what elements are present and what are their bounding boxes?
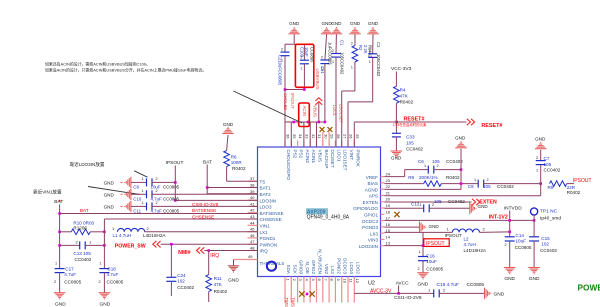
svg-text:GND: GND [455, 136, 466, 141]
svg-text:GND: GND [350, 21, 361, 26]
svg-text:靠近LDO3IN放置: 靠近LDO3IN放置 [70, 161, 105, 168]
svg-text:GND: GND [429, 224, 440, 229]
svg-text:GND: GND [494, 291, 505, 297]
svg-text:GPIO2: GPIO2 [311, 260, 316, 274]
svg-text:25: 25 [355, 134, 360, 139]
svg-text:C1: C1 [340, 40, 345, 46]
svg-text:CC0805: CC0805 [163, 185, 180, 190]
svg-text:102: 102 [541, 242, 549, 247]
svg-text:VIN3: VIN3 [368, 238, 379, 243]
svg-text:34: 34 [298, 134, 303, 139]
svg-text:1: 1 [281, 59, 283, 63]
svg-text:PGND1: PGND1 [260, 236, 276, 241]
svg-text:2: 2 [437, 164, 439, 168]
svg-text:APS: APS [369, 194, 378, 199]
svg-text:N_VBUSEN: N_VBUSEN [318, 249, 323, 274]
svg-text:10uF: 10uF [304, 47, 309, 57]
svg-text:2: 2 [156, 201, 158, 205]
svg-text:31: 31 [317, 134, 322, 139]
svg-text:33: 33 [305, 134, 310, 139]
svg-text:47K: 47K [400, 94, 409, 99]
svg-text:EXTEN: EXTEN [363, 200, 378, 205]
svg-text:R0402: R0402 [232, 166, 246, 171]
svg-text:IRQ: IRQ [260, 249, 269, 254]
svg-text:32: 32 [311, 134, 316, 139]
svg-text:49: 49 [248, 254, 253, 259]
svg-text:LDO4: LDO4 [349, 262, 354, 274]
svg-text:GND: GND [104, 180, 115, 185]
svg-text:PGND2: PGND2 [336, 258, 341, 274]
svg-text:30: 30 [323, 134, 328, 139]
svg-text:16: 16 [386, 222, 391, 227]
svg-text:NMI#: NMI# [178, 250, 191, 256]
svg-text:CC0805: CC0805 [163, 197, 180, 202]
svg-text:10: 10 [342, 279, 347, 284]
svg-text:TWSI_SCK: TWSI_SCK [290, 298, 295, 307]
svg-text:12: 12 [355, 279, 360, 284]
svg-text:C6: C6 [418, 159, 424, 164]
svg-text:POWER: POWER [578, 283, 600, 293]
svg-text:4.7uF: 4.7uF [151, 209, 163, 214]
svg-text:VIN2: VIN2 [324, 264, 329, 275]
svg-text:27: 27 [342, 134, 347, 139]
svg-text:CHOLED/GPO: CHOLED/GPO [286, 150, 291, 181]
svg-text:CC0402: CC0402 [540, 248, 557, 253]
svg-text:VCC-3V3: VCC-3V3 [391, 66, 412, 72]
svg-text:VINT: VINT [349, 150, 354, 161]
svg-text:38: 38 [250, 183, 255, 188]
svg-text:C15: C15 [541, 236, 550, 241]
svg-text:102: 102 [177, 279, 185, 284]
svg-text:C24: C24 [177, 273, 186, 278]
svg-text:4.7uF: 4.7uF [107, 272, 119, 277]
svg-text:2: 2 [300, 56, 302, 60]
svg-text:IPSOUT: IPSOUT [166, 160, 184, 166]
svg-text:4.7uF: 4.7uF [64, 272, 76, 277]
svg-text:GPIO0/LDO: GPIO0/LDO [353, 206, 378, 211]
svg-text:GND: GND [368, 21, 379, 26]
svg-text:44: 44 [250, 220, 255, 225]
svg-text:R0402: R0402 [446, 175, 460, 180]
svg-text:105: 105 [483, 184, 491, 189]
svg-text:2: 2 [536, 156, 538, 160]
svg-text:BAT2: BAT2 [260, 192, 272, 197]
svg-text:R1206: R1206 [73, 226, 87, 231]
svg-text:1: 1 [55, 262, 57, 266]
svg-text:105CC0402: 105CC0402 [376, 54, 381, 77]
svg-text:2: 2 [487, 178, 489, 182]
svg-text:R9: R9 [548, 185, 554, 190]
svg-text:LDO3: LDO3 [260, 205, 272, 210]
svg-text:LDO1: LDO1 [336, 150, 341, 162]
svg-text:C16: C16 [426, 254, 435, 259]
svg-text:R0402: R0402 [400, 100, 414, 105]
svg-text:CC0805: CC0805 [467, 282, 485, 288]
svg-text:IPSOUT: IPSOUT [573, 178, 592, 184]
svg-text:GPIO0: GPIO0 [299, 260, 304, 274]
svg-text:C18: C18 [107, 267, 116, 272]
svg-text:LDO1: LDO1 [332, 105, 337, 117]
svg-text:29: 29 [330, 134, 335, 139]
svg-text:13: 13 [386, 241, 391, 246]
svg-text:GND: GND [418, 281, 429, 287]
svg-text:C12: C12 [411, 202, 420, 207]
svg-text:1: 1 [369, 60, 371, 64]
svg-text:如果还有ACIN的设计，需把ACIN和USBVBUS短接用C: 如果还有ACIN的设计，需把ACIN和USBVBUS短接用C109。 [45, 62, 150, 67]
svg-text:R0402: R0402 [367, 45, 372, 58]
svg-text:LDO1SET: LDO1SET [338, 104, 343, 124]
svg-text:1: 1 [142, 189, 144, 193]
svg-text:46: 46 [250, 233, 255, 238]
svg-text:39: 39 [250, 189, 255, 194]
svg-text:PS1: PS1 [299, 150, 304, 159]
svg-text:L1 4.7uH: L1 4.7uH [113, 233, 132, 238]
svg-text:GND: GND [104, 192, 115, 197]
svg-text:TS: TS [260, 179, 266, 184]
svg-text:17: 17 [386, 216, 391, 221]
svg-text:CC0805: CC0805 [515, 245, 532, 250]
svg-text:48: 48 [250, 246, 255, 251]
svg-text:2: 2 [418, 267, 420, 271]
svg-text:LDO1SET: LDO1SET [343, 150, 348, 171]
svg-text:IPSOUT: IPSOUT [290, 93, 295, 109]
svg-text:19: 19 [386, 203, 391, 208]
svg-text:R11: R11 [214, 276, 223, 281]
svg-text:INTVDD: INTVDD [504, 206, 522, 212]
svg-text:BATSENSE: BATSENSE [260, 211, 284, 216]
svg-text:43: 43 [250, 214, 255, 219]
svg-text:GND: GND [529, 276, 540, 282]
svg-text:41: 41 [250, 201, 255, 206]
svg-text:RESET#: RESET# [481, 123, 502, 129]
svg-text:200K/1%: 200K/1% [419, 175, 438, 180]
svg-text:47: 47 [250, 239, 255, 244]
svg-text:靠近VIN1放置: 靠近VIN1放置 [33, 188, 62, 195]
svg-text:47K: 47K [214, 282, 223, 287]
svg-text:105: 105 [434, 199, 442, 204]
svg-text:20: 20 [386, 197, 391, 202]
svg-text:PWROK: PWROK [355, 150, 360, 168]
svg-text:IPSOUT: IPSOUT [445, 233, 462, 238]
svg-text:CSI0-IO-2V8: CSI0-IO-2V8 [192, 202, 219, 207]
svg-text:VBUS: VBUS [318, 150, 323, 163]
svg-text:CC0805: CC0805 [163, 209, 180, 214]
svg-text:14: 14 [386, 234, 391, 239]
svg-text:4.7uH: 4.7uH [464, 242, 476, 247]
svg-text:GND: GND [100, 302, 111, 307]
svg-text:23: 23 [386, 178, 391, 183]
svg-text:2: 2 [505, 243, 507, 247]
svg-text:GND: GND [104, 204, 115, 209]
svg-text:DCDC3: DCDC3 [343, 258, 348, 274]
svg-text:GND: GND [391, 156, 402, 161]
svg-text:R0402: R0402 [214, 289, 228, 294]
svg-text:105: 105 [544, 162, 552, 167]
svg-text:1: 1 [142, 201, 144, 205]
svg-text:BACKUP: BACKUP [324, 150, 329, 169]
svg-text:ACIN2: ACIN2 [305, 150, 310, 164]
svg-text:LDO2: LDO2 [355, 262, 360, 274]
svg-text:tp40_smd: tp40_smd [540, 215, 561, 221]
svg-text:100R: 100R [231, 160, 243, 165]
svg-text:DCDC3: DCDC3 [362, 219, 378, 224]
svg-text:CC0805: CC0805 [64, 280, 81, 285]
svg-text:C19 4.7uF: C19 4.7uF [437, 282, 459, 288]
svg-text:40: 40 [250, 195, 255, 200]
svg-text:22: 22 [386, 184, 391, 189]
svg-text:ACIN: ACIN [302, 106, 307, 117]
svg-text:CC0402: CC0402 [406, 147, 423, 152]
svg-text:BIAS: BIAS [368, 181, 378, 186]
svg-text:R6: R6 [231, 155, 237, 160]
svg-text:AVCC-3V: AVCC-3V [370, 289, 392, 295]
svg-text:GND: GND [331, 21, 342, 26]
svg-text:1: 1 [100, 262, 102, 266]
svg-text:1: 1 [420, 203, 422, 207]
svg-text:R2: R2 [358, 45, 363, 51]
svg-text:CC0805: CC0805 [426, 267, 443, 272]
svg-text:CC0402: CC0402 [75, 257, 92, 262]
svg-text:10uF: 10uF [426, 259, 437, 264]
svg-text:10uF: 10uF [516, 239, 527, 244]
svg-text:1: 1 [536, 169, 538, 173]
svg-text:LX3: LX3 [370, 231, 379, 236]
svg-text:C14: C14 [516, 233, 525, 238]
svg-text:GPIO1: GPIO1 [364, 212, 378, 217]
svg-text:2: 2 [99, 280, 101, 284]
svg-text:2: 2 [156, 177, 158, 181]
svg-text:C33: C33 [406, 135, 415, 140]
svg-text:SDA: SDA [286, 265, 291, 275]
svg-text:ACIN1: ACIN1 [311, 150, 316, 164]
svg-text:GND: GND [289, 21, 300, 26]
svg-text:R4: R4 [400, 88, 406, 93]
svg-text:LX1: LX1 [260, 230, 269, 235]
svg-text:1: 1 [300, 67, 302, 71]
svg-text:105: 105 [406, 141, 414, 146]
svg-text:21: 21 [386, 190, 391, 195]
svg-text:VBUS: VBUS [313, 105, 318, 117]
svg-text:VIN1: VIN1 [260, 224, 271, 229]
svg-text:IPSOUT: IPSOUT [426, 241, 445, 247]
svg-text:C8: C8 [133, 185, 139, 190]
svg-text:C11: C11 [133, 209, 141, 214]
svg-text:LDO24IN: LDO24IN [359, 244, 378, 249]
svg-text:105: 105 [432, 159, 440, 164]
svg-text:GND: GND [223, 122, 234, 127]
svg-text:VREF: VREF [366, 175, 378, 180]
svg-text:QFN49_0_4H0_8A: QFN49_0_4H0_8A [307, 215, 350, 221]
svg-text:35: 35 [292, 134, 297, 139]
svg-text:DC3SET: DC3SET [330, 150, 335, 168]
svg-text:1: 1 [419, 250, 421, 254]
svg-text:C7: C7 [544, 156, 550, 161]
svg-text:GND: GND [504, 276, 515, 282]
svg-text:L4D18H2A: L4D18H2A [464, 248, 487, 253]
svg-text:1: 1 [142, 177, 144, 181]
svg-text:24: 24 [386, 172, 391, 177]
svg-text:CC0402: CC0402 [497, 184, 514, 189]
svg-text:POWER_SW: POWER_SW [115, 244, 146, 250]
svg-text:PWRON: PWRON [260, 242, 278, 247]
svg-text:AVCC: AVCC [396, 280, 410, 286]
svg-text:R0402: R0402 [567, 190, 581, 195]
svg-text:C33在先启动时的元素: C33在先启动时的元素 [393, 122, 427, 127]
svg-text:36: 36 [286, 134, 291, 139]
svg-text:TP1 NC: TP1 NC [540, 209, 558, 215]
svg-text:如果没ACIN的设计，只需把ACIN和USBVBUS分开，并: 如果没ACIN的设计，只需把ACIN和USBVBUS分开，并在ACIN上靠近PM… [45, 68, 206, 73]
svg-text:2.2K: 2.2K [363, 45, 368, 54]
svg-text:USBVBUS: USBVBUS [315, 69, 320, 90]
svg-text:1: 1 [351, 66, 353, 70]
svg-text:CC0402: CC0402 [544, 168, 561, 173]
svg-text:RESET#: RESET# [404, 116, 425, 122]
svg-text:C17: C17 [65, 267, 74, 272]
svg-text:1: 1 [424, 164, 426, 168]
svg-text:CHSENSE: CHSENSE [260, 217, 282, 222]
svg-text:SCK: SCK [292, 265, 297, 275]
svg-text:42: 42 [250, 208, 255, 213]
svg-text:45: 45 [250, 227, 255, 232]
svg-text:PS2: PS2 [292, 150, 297, 159]
svg-text:GND: GND [228, 278, 239, 284]
svg-text:U2: U2 [368, 280, 375, 286]
svg-text:INT-1V2: INT-1V2 [489, 215, 508, 221]
svg-text:1: 1 [474, 178, 476, 182]
svg-text:BAT1: BAT1 [260, 186, 272, 191]
svg-text:2: 2 [156, 189, 158, 193]
svg-text:26: 26 [349, 134, 354, 139]
svg-text:LX2: LX2 [330, 266, 335, 275]
svg-text:CC0402: CC0402 [177, 285, 194, 290]
svg-text:CSI1-IO-2V8: CSI1-IO-2V8 [394, 295, 422, 301]
svg-text:C3: C3 [376, 42, 381, 48]
svg-text:2: 2 [281, 48, 283, 52]
svg-text:105CC0402: 105CC0402 [340, 52, 345, 75]
svg-text:2: 2 [351, 42, 353, 46]
svg-text:C9: C9 [468, 184, 474, 189]
svg-text:2: 2 [54, 280, 56, 284]
svg-text:C13 105: C13 105 [73, 251, 91, 256]
svg-text:GND: GND [535, 136, 546, 141]
svg-text:28: 28 [336, 134, 341, 139]
svg-text:R8: R8 [408, 175, 414, 180]
svg-text:CHOLED: CHOLED [283, 93, 288, 110]
svg-text:37: 37 [250, 176, 255, 181]
svg-text:GND: GND [478, 204, 489, 209]
svg-text:GND: GND [55, 302, 66, 307]
svg-text:CC0402: CC0402 [448, 199, 465, 204]
svg-text:18: 18 [386, 209, 391, 214]
svg-text:PGND3: PGND3 [362, 225, 378, 230]
svg-text:TWSI_SDA: TWSI_SDA [284, 298, 289, 307]
svg-text:LDO3IN: LDO3IN [260, 198, 277, 203]
svg-text:BATSENSE: BATSENSE [192, 208, 216, 213]
svg-text:L4D18H2A: L4D18H2A [143, 233, 166, 238]
svg-text:L2: L2 [464, 237, 470, 242]
svg-text:IRQ: IRQ [210, 253, 219, 259]
svg-text:2: 2 [321, 55, 323, 59]
svg-text:AGND: AGND [365, 187, 379, 192]
svg-text:N_OE: N_OE [305, 261, 310, 274]
svg-text:CC0805: CC0805 [107, 280, 124, 285]
